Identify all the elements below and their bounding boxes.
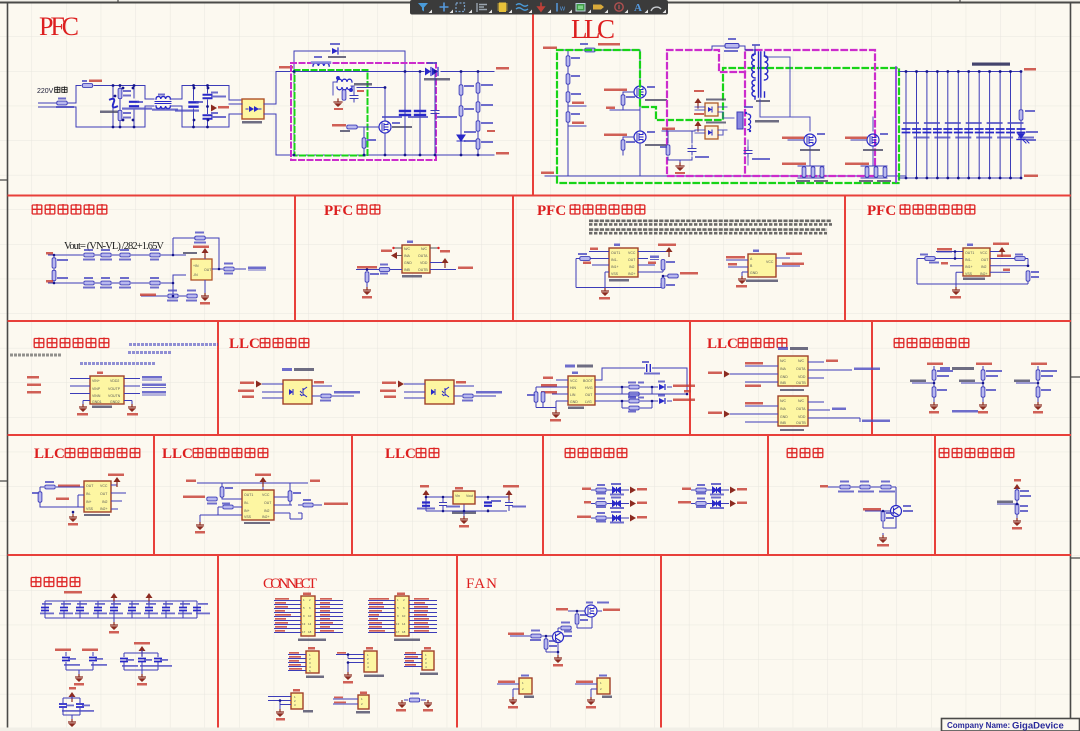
- resistor R62: [860, 485, 870, 489]
- resistor R70: [531, 634, 541, 638]
- resistor R1 inline: [57, 101, 67, 105]
- left input row3: [583, 262, 591, 265]
- mid-left cap pair: [55, 649, 107, 686]
- junction dots: [114, 70, 480, 156]
- ground: [110, 622, 118, 630]
- svg-text:VINP: VINP: [92, 387, 101, 391]
- svg-text:17: 17: [302, 630, 306, 634]
- svg-text:10: 10: [402, 614, 406, 618]
- LED row 4: [682, 483, 747, 496]
- resistor R23: [566, 92, 570, 102]
- gate resistor R25: [621, 95, 625, 105]
- svg-text:13: 13: [302, 622, 306, 626]
- title PFC驱动 (row2): [324, 203, 380, 219]
- svg-text:OUTA: OUTA: [418, 254, 428, 258]
- left input ADC: [937, 248, 952, 251]
- right network: [274, 489, 322, 519]
- input net 14N5_DRIVE: [357, 266, 377, 269]
- title LLC原边驱动 (row3): [229, 336, 309, 352]
- row3 dividers: [218, 321, 872, 435]
- svg-text:LLC: LLC: [229, 336, 260, 352]
- grounds: [83, 401, 132, 405]
- resistor R68: [575, 614, 579, 624]
- gnd: [72, 512, 74, 514]
- driver IC U2: [402, 245, 430, 273]
- svg-text:IN2+: IN2+: [980, 272, 988, 276]
- wire top rail: [558, 50, 640, 176]
- resistor R35: [101, 281, 111, 285]
- net DR2_CURRENT: [782, 163, 806, 166]
- svg-text:GND: GND: [780, 415, 788, 419]
- title LLC副边电流检测 (row4): [162, 446, 268, 462]
- resistor R56: [38, 492, 42, 502]
- svg-text:LLC: LLC: [162, 446, 193, 462]
- divider H2: [8, 320, 1072, 322]
- fan connector CN2: [575, 675, 612, 709]
- resistor R11: [118, 110, 122, 120]
- pin4 wire: [990, 271, 1010, 273]
- icon tag: [593, 5, 604, 10]
- gnd pin: [204, 280, 206, 293]
- svg-text:PFC: PFC: [324, 203, 353, 219]
- optocoupler U8: [283, 380, 312, 404]
- svg-text:VCC: VCC: [628, 251, 636, 255]
- svg-text:VOUTP: VOUTP: [108, 387, 121, 391]
- left cap + loop: [576, 259, 661, 288]
- input: [508, 633, 524, 636]
- gate drive transformer block D52: [705, 126, 718, 139]
- svg-text:GND: GND: [780, 375, 788, 379]
- left wires: [730, 366, 778, 382]
- svg-text:VSS: VSS: [611, 272, 619, 276]
- bottom scrollbar strip: [0, 728, 1080, 731]
- net DR1_CURRENT: [845, 163, 869, 166]
- note text line2: [589, 230, 827, 234]
- svg-text:INB: INB: [780, 381, 787, 385]
- svg-text:GND1: GND1: [92, 400, 102, 404]
- wire secondary down: [760, 57, 873, 166]
- output cap C6: [419, 72, 421, 156]
- left wires: [262, 384, 283, 398]
- supply arrow left: [423, 490, 430, 500]
- small note texts: [80, 345, 218, 364]
- magenta dashed boundary: [667, 50, 875, 176]
- right wires: [808, 362, 852, 378]
- svg-text:PFC: PFC: [39, 12, 79, 41]
- svg-text:GND: GND: [404, 261, 412, 265]
- svg-text:18: 18: [402, 630, 406, 634]
- regulator U4: [453, 491, 475, 504]
- svg-text:w: w: [559, 6, 566, 13]
- connector P2: [368, 593, 437, 642]
- svg-text:VCC: VCC: [100, 484, 108, 488]
- bottom cap pair: [59, 687, 94, 731]
- title 输入电压检测 (row2): [32, 204, 107, 215]
- resistor R61: [840, 485, 850, 489]
- divider H1: [8, 195, 1072, 197]
- output cap C5: [404, 72, 406, 156]
- svg-text:A: A: [634, 2, 642, 14]
- junction dots input: [112, 84, 209, 128]
- LVG row: resistor + diode: [595, 401, 672, 408]
- svg-text:13: 13: [396, 622, 400, 626]
- icon annotation: [615, 3, 623, 11]
- cap C7 small: [434, 72, 436, 156]
- svg-text:OUT: OUT: [264, 501, 272, 505]
- svg-text:PFC: PFC: [537, 203, 566, 219]
- cap CE2: [484, 503, 492, 506]
- resistor R63: [881, 485, 891, 489]
- mid-right cap trio: [120, 642, 172, 686]
- violet bus line: [895, 67, 897, 182]
- bridge rectifier B1 GBJ2510: [242, 99, 264, 119]
- right resistor R73: [1026, 271, 1030, 281]
- left wires: [70, 379, 90, 394]
- resistor R69: [666, 145, 670, 155]
- pulse transformer L502: [737, 112, 743, 129]
- sense parts below CT: [342, 90, 346, 100]
- resistor R40: [224, 267, 234, 271]
- resistor R65: [1015, 490, 1019, 500]
- ground: [676, 163, 684, 171]
- svg-text:HIN: HIN: [570, 386, 577, 390]
- left bias resistors: [536, 387, 556, 408]
- HVG row: resistor + diode: [595, 387, 672, 394]
- resistor R24: [566, 112, 570, 122]
- net PFC_N: [568, 125, 586, 127]
- svg-text:N/C: N/C: [404, 247, 411, 251]
- row3 input: [941, 262, 948, 265]
- row4 dividers: [154, 435, 935, 555]
- connector P5: [404, 647, 438, 675]
- cap labels: [40, 603, 210, 614]
- svg-text:INA: INA: [780, 407, 787, 411]
- wire HB node: [610, 98, 640, 176]
- sense resistors Q4: [861, 166, 887, 178]
- sheet border right: [1070, 2, 1072, 731]
- svg-text:OUT: OUT: [628, 258, 636, 262]
- supply: [111, 481, 117, 485]
- svg-text:Vout: Vout: [466, 494, 473, 498]
- wire primary top: [712, 46, 755, 50]
- fuse F2: [585, 48, 595, 52]
- svg-text:OUTA: OUTA: [796, 367, 806, 371]
- svg-text:GND: GND: [570, 400, 578, 404]
- row5 dividers: [218, 555, 661, 731]
- net PFC_F: [568, 105, 586, 107]
- driver IC U11: [778, 356, 808, 386]
- title 去耦电容 (row5): [31, 577, 80, 588]
- svg-text:N/C: N/C: [798, 359, 805, 363]
- input net 28V: [820, 485, 828, 488]
- left wires: [552, 380, 568, 401]
- magenta inner divider: [744, 72, 746, 176]
- svg-text:10: 10: [308, 614, 312, 618]
- svg-text:VCC: VCC: [262, 493, 270, 497]
- svg-text:INB: INB: [404, 268, 411, 272]
- varistor RV1: [110, 99, 117, 108]
- title PFC电压电流检测 (row2): [867, 203, 975, 219]
- gate resistor R26: [621, 140, 625, 150]
- supply 3.3V_PFC: [638, 251, 667, 253]
- svg-text:LLC: LLC: [571, 14, 615, 44]
- svg-text:OUTA: OUTA: [796, 407, 806, 411]
- output PFC_CS: [990, 259, 1028, 266]
- svg-text:IN+: IN+: [244, 509, 250, 513]
- net L-: [46, 280, 53, 283]
- resistor R29: [101, 253, 111, 257]
- connector P3: [288, 647, 324, 678]
- lcsc label: [282, 368, 292, 371]
- svg-text:IN2: IN2: [629, 265, 635, 269]
- cap plates: [903, 129, 1025, 133]
- svg-text:VDD: VDD: [420, 261, 428, 265]
- resistor R (gate pulldown): [362, 138, 366, 148]
- gnd: [463, 511, 465, 516]
- bleeder chain 1: [460, 72, 462, 156]
- row2 dividers: [295, 196, 845, 322]
- wire top chain: [54, 238, 219, 262]
- OVP output: [638, 258, 648, 260]
- svg-text:OUT1: OUT1: [965, 251, 974, 255]
- title LLC电源 (row4): [385, 446, 439, 462]
- svg-text:N/C: N/C: [421, 247, 428, 251]
- net +BUS: [543, 47, 557, 50]
- resistor R7: [118, 88, 122, 98]
- right wires: [808, 402, 860, 422]
- left wires: [404, 384, 425, 398]
- svg-text:VOUTN: VOUTN: [108, 394, 121, 398]
- bypass diode D4 wire: [294, 51, 405, 72]
- svg-text:VSS: VSS: [86, 507, 94, 511]
- supply flags: [111, 593, 118, 603]
- svg-text:+IN: +IN: [193, 264, 199, 268]
- svg-text:VSS: VSS: [244, 515, 252, 519]
- bottom rail PGND: [545, 175, 905, 177]
- diode D4: [332, 48, 338, 54]
- svg-text:IN2: IN2: [264, 509, 270, 513]
- net LLC_OUT: [997, 501, 1013, 504]
- svg-text:GigaDevice: GigaDevice: [1012, 721, 1064, 731]
- title PFC输出过压保护 (row2): [537, 203, 645, 219]
- note text line1: [589, 221, 832, 225]
- capacitor C1: [130, 102, 138, 106]
- divider V PFC/LLC: [532, 3, 534, 196]
- wires bridge to boost: [229, 72, 276, 156]
- divider H3: [8, 434, 1072, 436]
- earth flag: [211, 105, 217, 112]
- icon plus: [440, 3, 449, 12]
- output net DRIVE: [430, 269, 456, 271]
- svg-text:LLC: LLC: [34, 446, 65, 462]
- svg-text:LVG: LVG: [585, 400, 592, 404]
- fan connector CN1: [497, 675, 534, 709]
- svg-text:IN2+: IN2+: [100, 507, 108, 511]
- right pins: [111, 493, 126, 509]
- gnd: [555, 408, 557, 411]
- resistor R34: [365, 272, 369, 282]
- ovp logic IC U5: [748, 254, 776, 277]
- svg-text:OUTB: OUTB: [796, 421, 806, 425]
- left input: [45, 485, 55, 489]
- supply arrow: [695, 121, 702, 131]
- svg-text:OUT1: OUT1: [611, 251, 620, 255]
- connector CN4: [333, 692, 370, 714]
- resistor R71: [544, 639, 548, 649]
- lcsc label 2: [565, 365, 575, 368]
- resistor R67 with grounds: [396, 693, 433, 712]
- resistor R57: [220, 487, 224, 497]
- title 过温保护电路 (row3): [894, 338, 969, 349]
- svg-text:Company Name:: Company Name:: [947, 721, 1010, 730]
- supply: [1014, 484, 1021, 494]
- svg-text:VDD2: VDD2: [110, 379, 119, 383]
- output capacitor bank C20-C31: [906, 72, 1021, 179]
- inductor L1: [725, 44, 739, 49]
- resistor R31: [150, 253, 160, 257]
- svg-text:OUT: OUT: [100, 492, 108, 496]
- resistor R37: [150, 281, 160, 285]
- resistor R38: [168, 294, 178, 298]
- input wires: [726, 260, 748, 267]
- supply 3.3V_PFC: [204, 252, 206, 259]
- icon wires: [516, 4, 528, 11]
- svg-text:IN1-: IN1-: [965, 258, 972, 262]
- right wires + resistor: [312, 386, 354, 396]
- svg-text:FAN: FAN: [466, 576, 497, 592]
- NTC branch 2: [959, 363, 1002, 414]
- optocoupler U9: [425, 380, 454, 404]
- gnd: [956, 272, 963, 287]
- sense IC U14: [242, 490, 274, 520]
- svg-text:VCC: VCC: [766, 260, 774, 264]
- gnd: [605, 272, 609, 288]
- svg-text:17: 17: [396, 630, 400, 634]
- driver IC U10: [568, 376, 595, 405]
- base resistor R64: [881, 511, 885, 521]
- capacitor C2: [190, 102, 198, 106]
- svg-text:OUT: OUT: [86, 484, 94, 488]
- current transformer T1: [337, 77, 353, 92]
- cap CE1: [422, 503, 430, 506]
- svg-text:BOOT: BOOT: [583, 379, 594, 383]
- svg-text:OUTB: OUTB: [796, 381, 806, 385]
- svg-text:IN1+: IN1+: [611, 265, 619, 269]
- icon align: [477, 3, 487, 12]
- resistor R21: [566, 56, 570, 66]
- NTC branch 3: [1014, 363, 1057, 414]
- resistor R28: [84, 253, 94, 257]
- svg-text:OUT: OUT: [981, 258, 989, 262]
- cap C40: [439, 499, 447, 509]
- svg-text:IN2+: IN2+: [628, 272, 636, 276]
- svg-text:VIN+: VIN+: [92, 379, 100, 383]
- svg-text:VSS: VSS: [965, 272, 973, 276]
- sheet border left: [7, 2, 9, 731]
- LED row 1: [582, 483, 647, 496]
- output wire: [212, 262, 246, 269]
- svg-text:VDD: VDD: [798, 375, 806, 379]
- svg-text:IN1-: IN1-: [611, 258, 618, 262]
- icon arc: [651, 7, 661, 11]
- current sense IC U13: [84, 481, 111, 512]
- icon measure: [556, 3, 558, 12]
- sync mosfet Q4: [867, 134, 879, 146]
- supply arrow: [695, 98, 702, 108]
- icon chip yellow: [499, 3, 506, 13]
- svg-text:N/C: N/C: [780, 399, 787, 403]
- svg-text:VCC: VCC: [980, 251, 988, 255]
- capacitor C13: [688, 145, 696, 155]
- rails: [426, 497, 509, 511]
- svg-text:18: 18: [308, 630, 312, 634]
- divider H4: [8, 554, 1072, 556]
- svg-text:LLC: LLC: [385, 446, 416, 462]
- title 输入电压检测 (row3): [34, 338, 109, 349]
- svg-text:GND: GND: [750, 271, 758, 275]
- bottom gnd: [200, 515, 242, 522]
- resonant transformer T2: [752, 50, 768, 99]
- gate network: [332, 124, 346, 127]
- label 最大输出电流31A: [972, 63, 1010, 66]
- right divider resistors: [638, 270, 663, 281]
- OUT long wire: [595, 393, 687, 395]
- mosfet Q6: [585, 605, 597, 617]
- common mode choke L3: [155, 96, 171, 108]
- supply: [262, 481, 264, 490]
- svg-text:VCC: VCC: [570, 379, 578, 383]
- connector P1: [274, 593, 343, 642]
- driver IC U12: [778, 396, 808, 426]
- svg-text:Vin: Vin: [455, 494, 460, 498]
- green dashed boundary: [295, 70, 368, 156]
- gnd: [554, 655, 562, 663]
- transistor Q5: [891, 506, 902, 517]
- resistor R39: [187, 294, 197, 298]
- svg-text:IN2: IN2: [102, 500, 108, 504]
- svg-text:IN1+: IN1+: [965, 265, 973, 269]
- ground: [366, 282, 368, 287]
- svg-text:GND2: GND2: [110, 400, 120, 404]
- gnd: [742, 272, 748, 276]
- svg-text:LIN: LIN: [570, 393, 576, 397]
- output wires: [776, 258, 800, 266]
- net +BUS: [279, 66, 293, 69]
- top rail: [186, 480, 196, 483]
- resistor R36: [120, 281, 130, 285]
- bottom note: [952, 410, 978, 413]
- icon red arrow: [538, 3, 544, 12]
- sheet border top: [0, 2, 1080, 4]
- op-amp U1: [191, 259, 212, 280]
- bleeder chain 2: [477, 72, 479, 156]
- sense resistors Q3: [798, 166, 824, 178]
- boost diode D6: [425, 68, 438, 76]
- svg-text:220V: 220V: [37, 88, 54, 95]
- top cap bank rails: [45, 597, 197, 622]
- bootstrap loop + cap C19: [595, 368, 687, 394]
- transistor Q7: [553, 632, 564, 643]
- svg-text:14: 14: [308, 622, 312, 626]
- magenta dashed boundary: [291, 63, 436, 160]
- opamp IC U6: [963, 248, 990, 276]
- svg-text:VDD: VDD: [798, 415, 806, 419]
- resonant cap C12: [744, 147, 752, 157]
- comparator U3: [609, 248, 638, 277]
- right wires + resistor: [454, 386, 496, 396]
- PFC bus rail: [276, 72, 494, 156]
- left input: [183, 496, 205, 499]
